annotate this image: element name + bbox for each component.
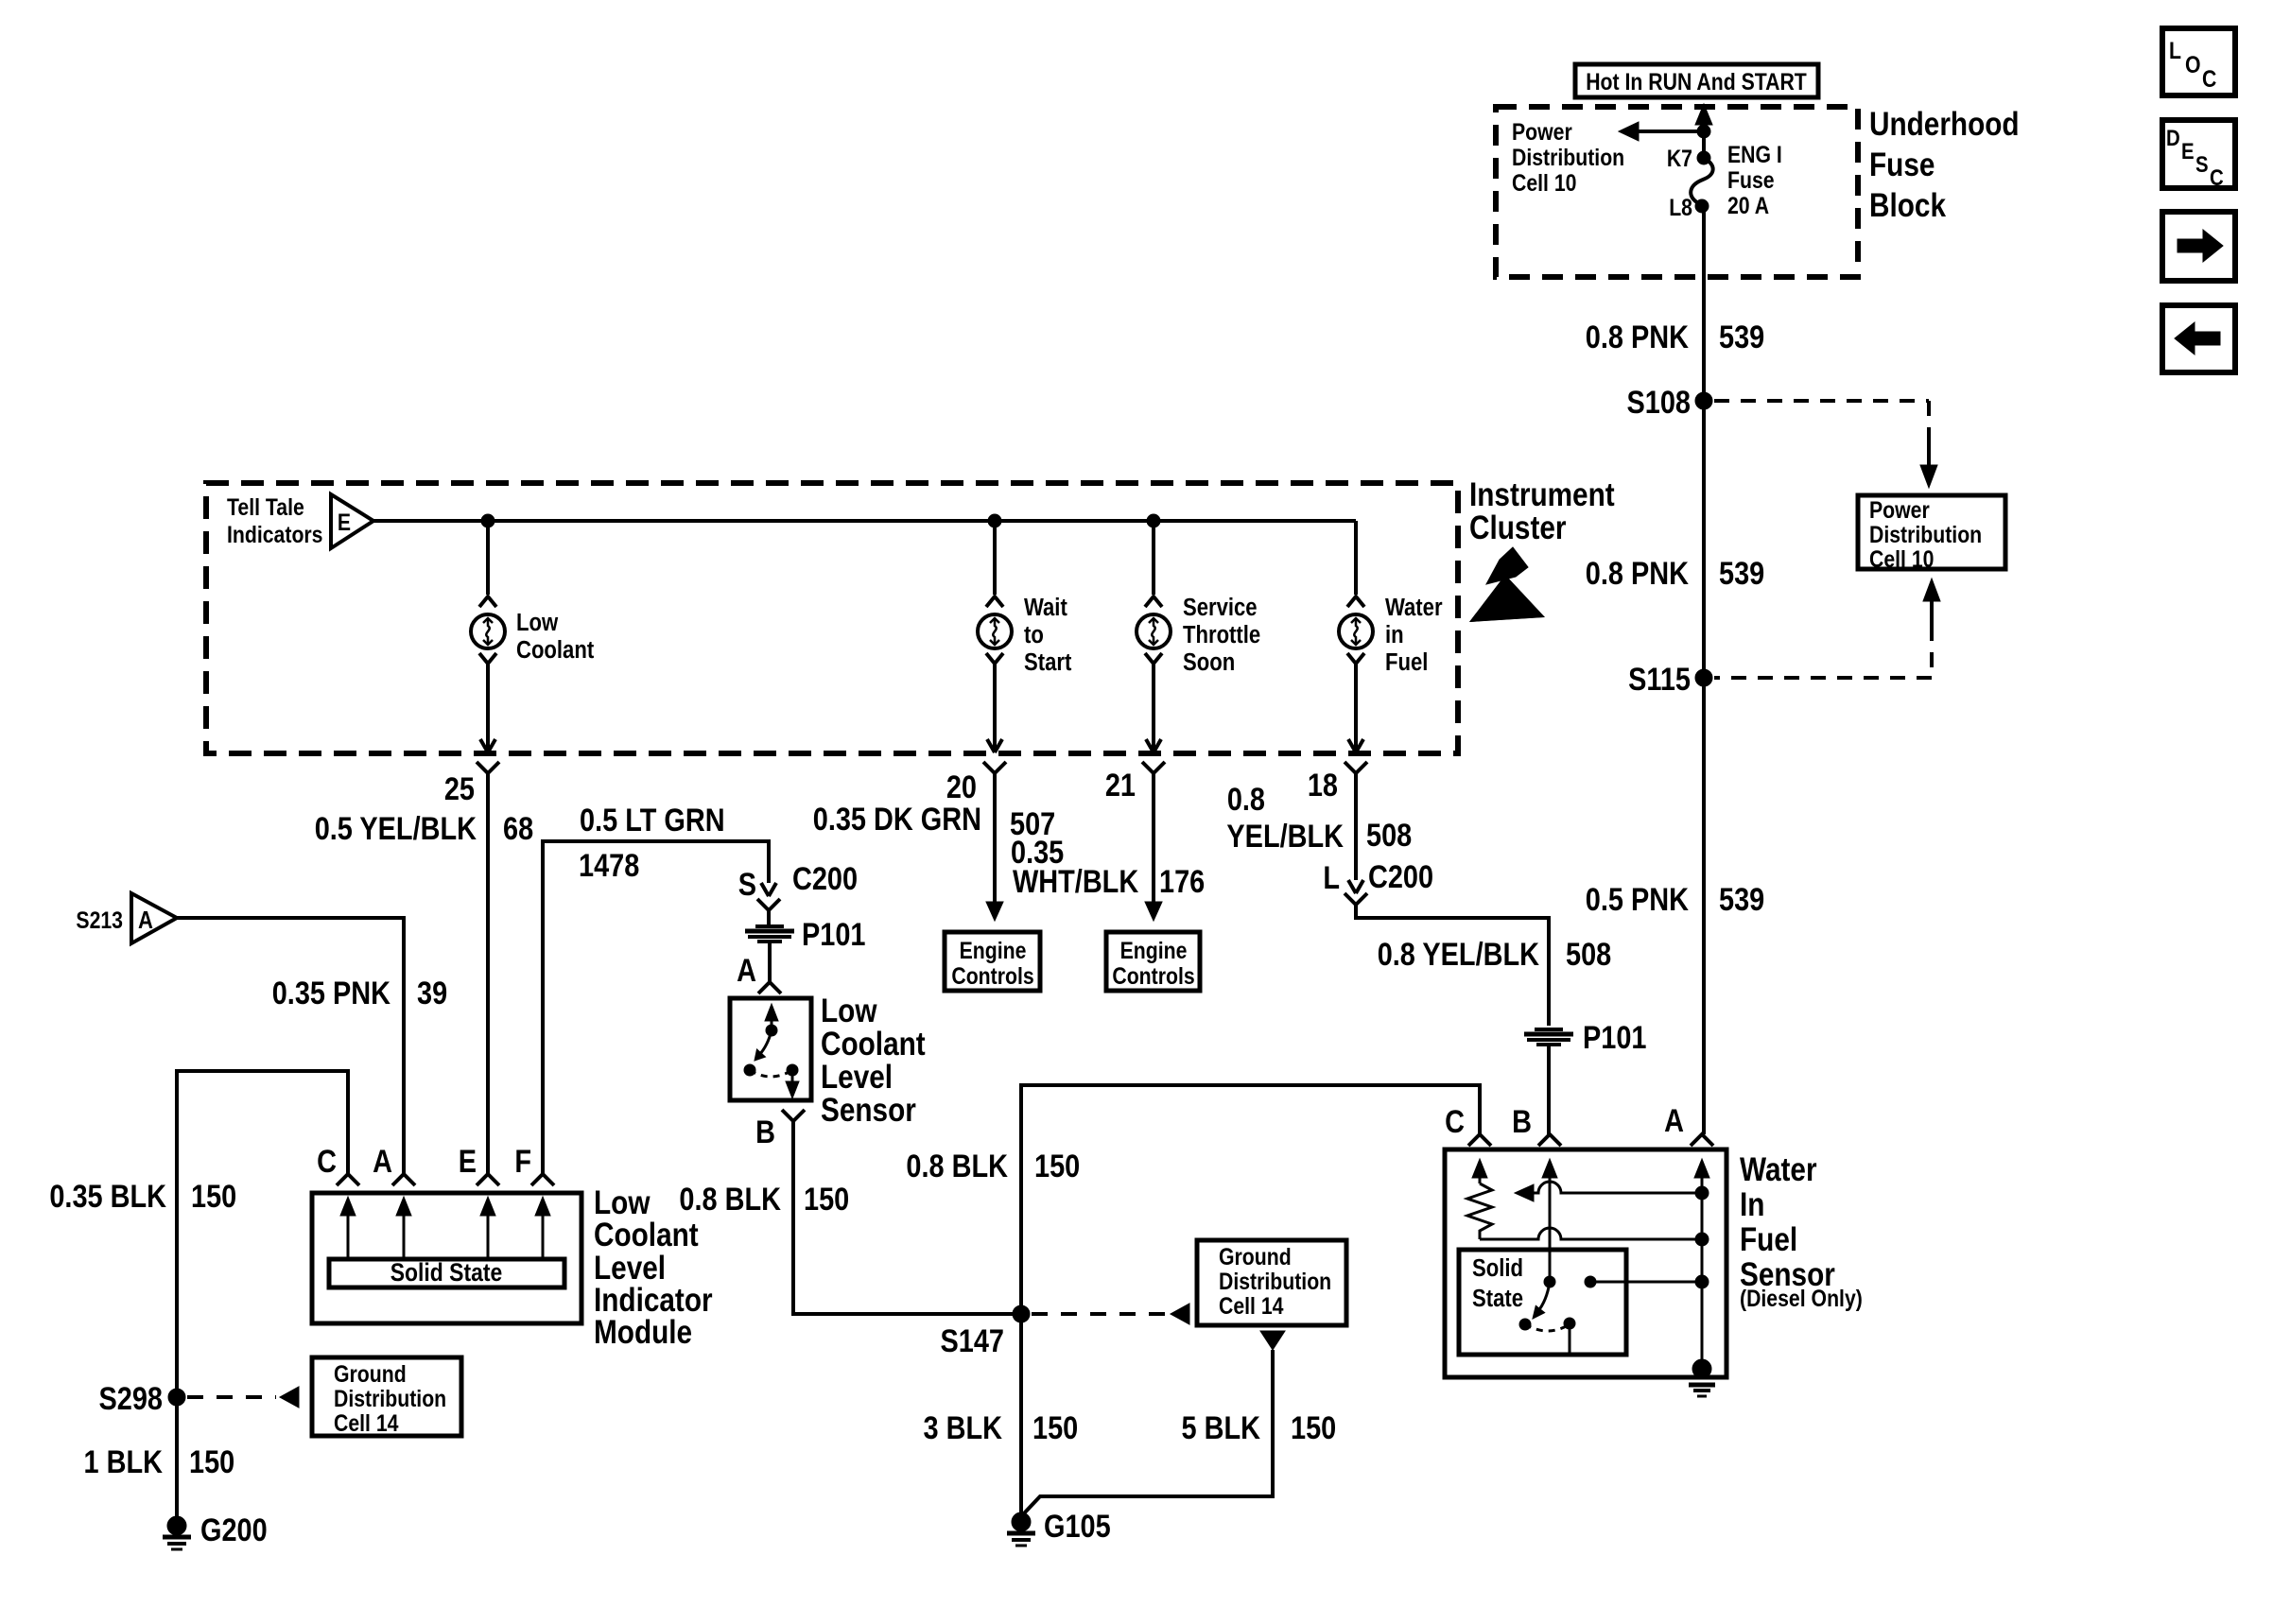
svg-text:Engine: Engine [960,937,1027,963]
label 5 BLK 150 [1182,1409,1337,1446]
svg-text:150: 150 [1291,1409,1336,1446]
junction dot lamp 2 [988,514,1001,527]
svg-text:C200: C200 [1368,858,1433,895]
svg-text:In: In [1740,1186,1764,1223]
junction dot switch-A [1695,1275,1709,1288]
pin L8 [1669,194,1709,220]
svg-text:S298: S298 [99,1380,163,1417]
label 0.5 PNK 539 [1586,881,1764,918]
svg-text:Indicators: Indicators [227,521,322,547]
svg-text:20: 20 [946,769,977,805]
svg-text:Water: Water [1385,594,1443,621]
connector C200 pin L [1323,858,1433,905]
splice S213 triangle connector A [76,893,177,943]
wire drop to Water in Fuel lamp [1354,521,1358,595]
svg-text:F: F [514,1143,531,1180]
svg-text:Power: Power [1512,118,1572,145]
Power Distribution Cell 10 label (fuse block) [1512,118,1624,196]
label 0.8 BLK 150 (S147 upper) [906,1148,1080,1184]
dashed wire S115 to Power Distribution Cell 10 [1714,579,1940,678]
sensor internal switch [744,1004,799,1098]
svg-text:Cell 14: Cell 14 [334,1409,399,1436]
svg-text:Distribution: Distribution [334,1385,446,1411]
svg-text:WHT/BLK: WHT/BLK [1013,863,1138,900]
Low Coolant Level Indicator Module label [594,1184,713,1351]
WIF pin chevrons [1468,1134,1713,1146]
svg-text:Coolant: Coolant [594,1217,699,1253]
WIF pin B wire to switch [1549,1176,1552,1282]
label 0.5 YEL/BLK 68 [315,810,533,847]
svg-text:Controls: Controls [1112,962,1194,989]
svg-text:Block: Block [1869,187,1947,224]
svg-text:Water: Water [1740,1151,1817,1188]
svg-text:0.5 PNK: 0.5 PNK [1586,881,1689,918]
svg-text:D: D [2166,125,2180,150]
svg-text:0.8 PNK: 0.8 PNK [1586,555,1689,592]
Low Coolant lamp label [516,609,594,664]
WIF solid state switch [1519,1276,1575,1355]
svg-text:G105: G105 [1044,1508,1111,1545]
label 0.5 LT GRN 1478 [579,802,725,884]
label 0.35 DK GRN 507 [813,801,1055,842]
svg-text:Level: Level [821,1059,893,1096]
Tell Tale Indicators label [227,493,322,547]
svg-text:Wait: Wait [1024,594,1067,621]
wire 0.35 DK GRN 507 from pin 20 to Engine Controls [986,773,1003,921]
dashed wire S108 to Power Distribution Cell 10 [1714,401,1937,488]
svg-text:A: A [138,907,153,934]
svg-text:State: State [1472,1285,1523,1312]
svg-text:Fuse: Fuse [1869,147,1935,183]
Underhood Fuse Block label [1869,106,2020,224]
label 0.35 BLK 150 [49,1178,236,1215]
wire 1 BLK 150 from S298 to G200 [175,1397,179,1520]
svg-text:Hot In RUN And START: Hot In RUN And START [1586,68,1807,95]
svg-text:A: A [373,1143,392,1180]
wire P101 to WIF sensor pin B [1547,1045,1551,1134]
sensor pin A chevron [758,982,781,993]
wire junction to K7 [1702,131,1706,158]
svg-text:E: E [338,509,351,535]
WIF resistor to pin A wire with bump [1480,1228,1702,1239]
svg-text:Service: Service [1183,594,1258,621]
Instrument Cluster dashed box [206,483,1458,753]
pin K7 [1667,145,1710,171]
svg-text:S213: S213 [76,907,123,933]
svg-text:in: in [1385,621,1404,648]
svg-text:Fuel: Fuel [1740,1221,1797,1258]
previous-page arrow button [2162,305,2235,372]
svg-text:Solid State: Solid State [390,1258,503,1287]
svg-text:1478: 1478 [579,847,639,884]
wire 3 BLK 150 from S147 to G105 [1019,1314,1023,1514]
wire P101 to Low Coolant Level Sensor pin A [768,942,772,982]
svg-text:Ground: Ground [1219,1243,1292,1270]
svg-text:Cluster: Cluster [1469,510,1567,546]
svg-text:0.5 LT GRN: 0.5 LT GRN [580,802,725,838]
label 0.35 PNK 39 [272,975,447,1011]
svg-text:39: 39 [417,975,447,1011]
svg-text:20 A: 20 A [1727,192,1769,218]
WIF switch contact to pin A [1585,1276,1702,1287]
svg-text:0.8 BLK: 0.8 BLK [906,1148,1008,1184]
junction dot lamp 1 [481,514,495,527]
sensor pin B connector [755,1110,805,1150]
svg-text:S: S [2195,151,2209,177]
svg-text:Instrument: Instrument [1469,476,1615,513]
svg-text:3 BLK: 3 BLK [924,1409,1003,1446]
ground G105 [1007,1508,1111,1546]
svg-text:B: B [1512,1103,1532,1140]
svg-text:S108: S108 [1627,384,1691,421]
svg-text:C: C [2210,164,2224,190]
svg-text:Level: Level [594,1250,666,1287]
svg-text:Distribution: Distribution [1219,1268,1331,1294]
Tell Tale Indicators triangle connector E [331,494,373,548]
svg-text:L: L [1323,859,1340,896]
svg-text:Module: Module [594,1314,692,1351]
svg-text:L8: L8 [1669,194,1692,220]
cluster exit connector at x=516 [477,664,499,773]
svg-text:Ground: Ground [334,1360,407,1387]
svg-text:Cell 14: Cell 14 [1219,1292,1284,1319]
wire pin 18 to C200 pin L [1354,773,1358,880]
LOC button [2162,28,2235,95]
label 0.8 YEL/BLK 508 (lower) [1378,936,1612,973]
svg-text:A: A [737,952,756,989]
svg-text:E: E [459,1143,477,1180]
svg-text:508: 508 [1366,817,1412,854]
svg-text:150: 150 [189,1443,234,1480]
Ground Distribution Cell 14 box (left) [312,1357,461,1436]
svg-text:5 BLK: 5 BLK [1182,1409,1261,1446]
Wait to Start indicator lamp [978,596,1012,664]
junction dot wiper-A [1695,1186,1709,1200]
wire 5 BLK 150 from Ground Distribution to G105 [1024,1331,1285,1513]
label 0.8 PNK 539 (lower) [1586,555,1764,592]
svg-text:Engine: Engine [1120,937,1188,963]
svg-text:Distribution: Distribution [1512,144,1624,170]
WIF resistor on pin C [1467,1176,1492,1239]
splice S147 [941,1305,1030,1359]
svg-text:Low: Low [516,609,558,636]
Water in Fuel indicator lamp [1339,596,1373,664]
svg-text:Tell Tale: Tell Tale [227,493,304,520]
svg-text:18: 18 [1308,767,1338,803]
wire 0.5 PNK 539 from S115 to Water In Fuel Sensor pin A [1702,678,1706,1134]
svg-text:A: A [1664,1102,1684,1139]
svg-text:0.8 BLK: 0.8 BLK [679,1181,781,1218]
svg-text:176: 176 [1159,863,1205,900]
wire up-arrow into Hot In RUN box [1695,104,1712,131]
wire drop to Service Throttle Soon lamp [1152,521,1155,595]
svg-text:Power: Power [1869,496,1930,523]
wire 0.35 BLK 150 from module pin C to S298 [177,1071,348,1397]
next-page arrow button [2162,212,2235,281]
svg-text:Soon: Soon [1183,648,1235,676]
svg-text:C200: C200 [792,860,858,897]
svg-text:Fuse: Fuse [1727,166,1775,193]
Engine Controls box (left) [945,932,1040,991]
Low Coolant Level Indicator Module box [312,1193,581,1323]
label 0.8 BLK 150 (sensor B) [679,1181,849,1218]
junction dot at fuse top [1697,125,1710,138]
svg-text:21: 21 [1105,767,1136,803]
WIF pin letters C B A [1445,1102,1684,1140]
wire 0.5 YEL/BLK 68 from pin 25 to module pin E [486,773,490,1174]
Service Throttle Soon lamp label [1183,594,1260,676]
svg-text:150: 150 [191,1178,236,1215]
Water in Fuel lamp label [1385,594,1443,676]
svg-text:Solid: Solid [1472,1254,1523,1282]
wire 0.8 BLK 150 from S147 to WIF sensor pin C [1021,1085,1480,1314]
svg-text:0.8 YEL/BLK: 0.8 YEL/BLK [1378,936,1539,973]
WIF wiper arrow line to pin A [1515,1182,1702,1201]
cluster exit connector at x=1052 [983,664,1006,773]
junction dot resistor-A [1695,1233,1709,1246]
Wait to Start lamp label [1024,594,1071,676]
svg-text:0.8: 0.8 [1227,781,1265,818]
Solid State box (WIF) [1459,1250,1626,1355]
svg-text:C: C [1445,1103,1465,1140]
svg-text:0.35 PNK: 0.35 PNK [272,975,390,1011]
svg-text:Coolant: Coolant [516,636,594,664]
module pin chevrons [337,1174,554,1185]
svg-text:150: 150 [1034,1148,1080,1184]
cluster exit connector at x=1434 [1345,664,1367,773]
label 0.8 YEL/BLK 508 (pin 18) [1226,781,1412,855]
WIF internal pin arrows [1472,1159,1709,1178]
wire 0.8 PNK 539 from fuse to S108 [1702,206,1706,401]
svg-text:E: E [2181,138,2195,164]
connector P101 (water in fuel) [1524,1019,1646,1056]
svg-text:Underhood: Underhood [1869,106,2020,143]
svg-text:Controls: Controls [951,962,1033,989]
module internal pin arrows [340,1197,550,1259]
fuse ENG I 20A symbol [1691,158,1712,203]
svg-text:Cell 10: Cell 10 [1869,545,1934,572]
tell tale bus wire [373,519,1356,523]
Low Coolant Level Sensor label [821,993,926,1129]
junction dot lamp 3 [1147,514,1160,527]
svg-text:S115: S115 [1628,661,1691,698]
svg-text:Throttle: Throttle [1183,621,1260,648]
DESC button [2162,120,2235,190]
svg-text:25: 25 [444,770,475,807]
svg-text:K7: K7 [1667,145,1692,171]
splice S115 [1628,661,1712,698]
module pin letters C A E F [317,1143,531,1180]
svg-text:B: B [755,1114,775,1150]
svg-text:O: O [2185,51,2201,78]
svg-text:to: to [1024,621,1044,648]
splice S298 [99,1380,185,1417]
svg-text:G200: G200 [200,1512,268,1548]
connector C200 pin S [738,860,858,910]
svg-text:Cell 10: Cell 10 [1512,169,1576,196]
label 1 BLK 150 [84,1443,235,1480]
svg-text:0.5 YEL/BLK: 0.5 YEL/BLK [315,810,477,847]
svg-text:ENG I: ENG I [1727,141,1782,167]
connector P101 (low coolant) [745,916,865,953]
svg-text:0.8 PNK: 0.8 PNK [1586,319,1689,355]
svg-text:68: 68 [503,810,533,847]
svg-text:0.35 BLK: 0.35 BLK [49,1178,166,1215]
Service Throttle Soon indicator lamp [1136,596,1171,664]
svg-text:539: 539 [1719,319,1764,355]
Hot In RUN And START box [1575,64,1818,97]
wire 0.8 PNK 539 from S108 to S115 [1702,401,1706,678]
ground G200 [163,1512,268,1549]
Power Distribution Cell 10 box [1858,495,2005,572]
wire 0.8 YEL/BLK 508 from C200 L to P101 [1356,905,1549,1026]
svg-text:Fuel: Fuel [1385,648,1428,676]
wire C200 S to P101 [767,910,771,926]
svg-text:S: S [738,866,756,903]
svg-text:1 BLK: 1 BLK [84,1443,164,1480]
wire drop to Low Coolant lamp [486,521,490,595]
wire 0.35 WHT/BLK 176 from pin 21 to Engine Controls [1145,773,1162,921]
Water In Fuel Sensor label [1740,1151,1863,1312]
label 0.8 PNK 539 (upper) [1586,319,1764,355]
Instrument Cluster label [1469,476,1615,546]
svg-text:0.35 DK GRN: 0.35 DK GRN [813,801,981,838]
svg-text:S147: S147 [941,1322,1004,1359]
svg-text:508: 508 [1566,936,1611,973]
svg-text:539: 539 [1719,555,1764,592]
svg-text:Sensor: Sensor [821,1092,916,1129]
wire 0.8 BLK 150 from sensor B to S147 [793,1121,1021,1314]
Underhood Fuse Block dashed box [1496,107,1858,277]
dashed reference S147 to Ground Distribution Cell 14 [1032,1304,1189,1324]
wire 0.35 PNK 39 from S213 to module pin A [177,918,404,1174]
svg-text:(Diesel Only): (Diesel Only) [1740,1285,1863,1311]
Low Coolant Level Sensor box [730,998,811,1100]
svg-text:Low: Low [594,1184,651,1221]
svg-text:P101: P101 [802,916,865,953]
wire 0.5 LT GRN 1478 from module pin F to C200 pin S [543,841,769,1174]
fuse ENG I 20A label [1727,141,1782,218]
Ground Distribution Cell 14 box (right) [1197,1240,1346,1325]
WIF pin A ground wire [1701,1176,1704,1369]
dashed reference S298 to Ground Distribution Cell 14 [187,1387,299,1408]
svg-text:P101: P101 [1583,1019,1646,1056]
Low Coolant indicator lamp [471,596,505,664]
WIF internal ground [1689,1359,1715,1396]
svg-text:150: 150 [1032,1409,1078,1446]
svg-text:C: C [2202,65,2217,92]
label 3 BLK 150 [924,1409,1079,1446]
svg-text:Indicator: Indicator [594,1282,713,1319]
splice S108 [1627,384,1712,421]
svg-text:YEL/BLK: YEL/BLK [1226,818,1344,855]
svg-text:Low: Low [821,993,877,1029]
Engine Controls box (right) [1106,932,1200,991]
svg-text:Coolant: Coolant [821,1026,926,1063]
svg-text:L: L [2169,37,2181,63]
wire drop to Wait to Start lamp [993,521,997,595]
svg-text:150: 150 [804,1181,849,1218]
svg-text:Distribution: Distribution [1869,521,1982,547]
Solid State box (module) [329,1258,564,1287]
svg-text:539: 539 [1719,881,1764,918]
svg-text:Start: Start [1024,648,1071,676]
left arrow to Power Distribution [1619,122,1704,141]
svg-text:C: C [317,1143,337,1180]
label 0.35 WHT/BLK 176 [1011,834,1205,900]
cluster exit connector at x=1220 [1142,664,1165,773]
Water In Fuel Sensor box [1445,1149,1726,1377]
